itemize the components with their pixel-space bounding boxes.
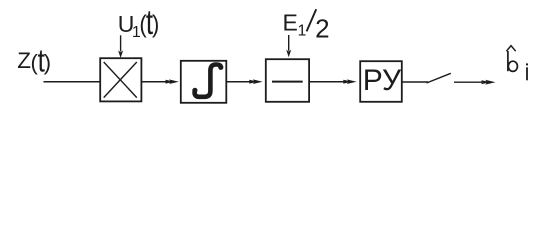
hat over b: [506, 46, 515, 52]
wire down arrow E1/2 into subtractor: [288, 35, 290, 51]
svg-text:РУ: РУ: [363, 64, 402, 97]
wire multiplier to integrator with arrow: [142, 81, 172, 83]
svg-text:E: E: [283, 10, 298, 36]
wire decision box to switch: [402, 81, 428, 83]
node output b_i label: [506, 46, 528, 81]
integrator ∫ symbol: [192, 65, 223, 97]
wire down arrow U1(t) into multiplier: [120, 35, 122, 51]
minus sign: [272, 81, 303, 83]
subtractor box: [266, 59, 309, 102]
integrator box: [181, 61, 227, 103]
wire integrator to subtractor with arrow: [227, 81, 256, 83]
subscript i: [526, 67, 528, 80]
svg-text:): ): [152, 11, 159, 39]
switch blade: [427, 73, 451, 83]
svg-text:1: 1: [298, 22, 307, 39]
wire input Z(t) to multiplier: [44, 81, 101, 83]
node Z(t) input label: [17, 44, 51, 79]
wire switch to output with arrow: [454, 81, 488, 83]
label E1/2: [283, 9, 330, 43]
wire subtractor to decision box with arrow: [309, 81, 349, 83]
svg-text:): ): [44, 50, 51, 75]
letter b: [507, 51, 509, 71]
multiplier U1 box: [100, 58, 141, 101]
decision device box РУ: [360, 61, 402, 102]
svg-text:2: 2: [315, 13, 329, 43]
multiplier X symbol: [104, 62, 137, 98]
label U1(t): [118, 2, 160, 42]
svg-text:Z: Z: [17, 48, 31, 73]
